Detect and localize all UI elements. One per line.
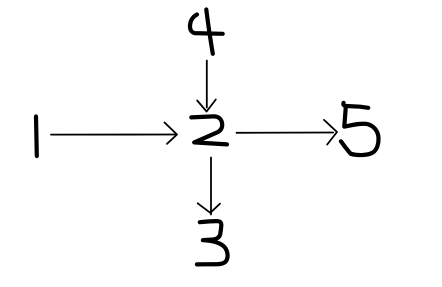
arrow 2 to 3 — [198, 158, 220, 215]
node 2 — [191, 116, 227, 144]
arrow 4 to 2 — [197, 61, 216, 112]
node 1 — [34, 117, 39, 157]
arrow 2 to 5 — [237, 120, 338, 145]
node 5 — [341, 103, 379, 155]
node 4 — [190, 10, 223, 54]
node 3 — [197, 221, 228, 264]
arrow 1 to 2 — [51, 123, 177, 144]
